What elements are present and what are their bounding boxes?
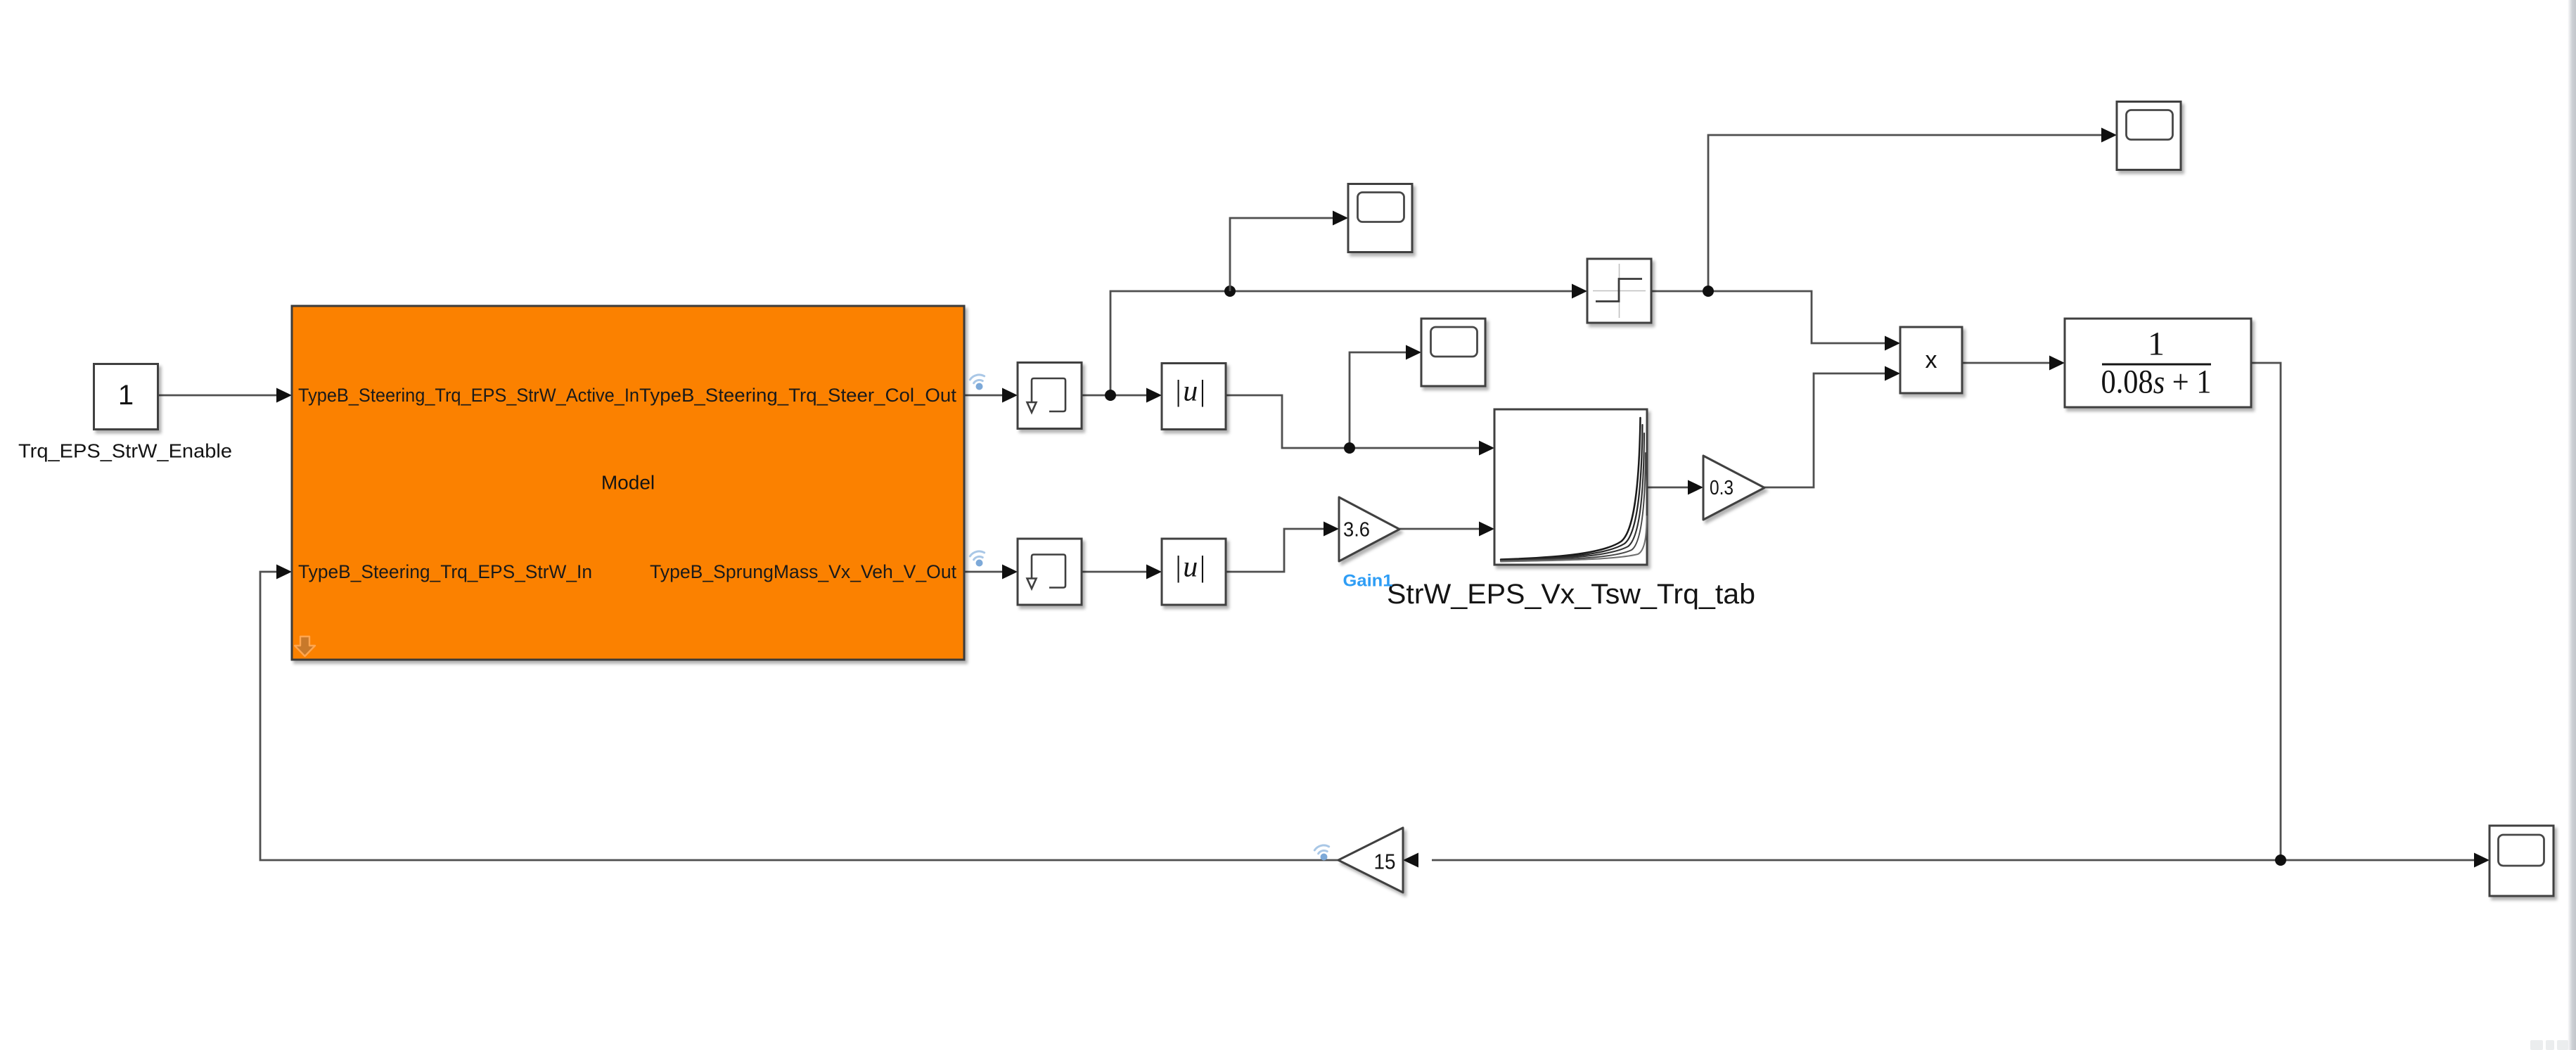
wire: Abs2 out up to Gain1 (3.6) [1226, 529, 1326, 572]
svg-text:TypeB_Steering_Trq_EPS_StrW_In: TypeB_Steering_Trq_EPS_StrW_In [298, 561, 592, 582]
logging wifi badge on out2 wire [969, 550, 984, 560]
arrowhead into Relay [1572, 284, 1587, 299]
wire: LUT out to Gain2 (0.3) [1647, 487, 1690, 489]
Scope3 (bottom right) [2490, 826, 2553, 896]
wire: Model out1 to Memory1 [964, 395, 1004, 397]
svg-text:1: 1 [118, 380, 134, 411]
arrowhead into Product in1 [1885, 336, 1900, 351]
svg-text:|u|: |u| [1175, 376, 1207, 408]
wire: Constant1 to Model in1 [158, 395, 279, 397]
model link badge (down arrow) [295, 636, 315, 656]
arrowhead into Gain1 [1324, 522, 1339, 537]
svg-text:x: x [1925, 347, 1937, 373]
scrollbar right [2568, 0, 2576, 1050]
svg-text:1: 1 [2148, 326, 2165, 363]
junction on Abs1-LUT wire [1344, 442, 1355, 454]
arrowhead into Transfer Fcn [2049, 356, 2065, 371]
Scope4 (middle) [1421, 319, 1485, 386]
wire: Memory1 to Abs1 with branch up to relay line [1082, 291, 1574, 395]
arrowhead into Memory2 [1002, 565, 1018, 580]
watermark bottom right [2530, 1040, 2568, 1050]
svg-text:3.6: 3.6 [1343, 519, 1370, 542]
wire: Memory2 to Abs2 [1082, 571, 1148, 573]
arrowhead into LUT in2 [1479, 522, 1494, 537]
arrowhead into Abs1 [1146, 388, 1162, 403]
svg-text:TypeB_SprungMass_Vx_Veh_V_Out: TypeB_SprungMass_Vx_Veh_V_Out [650, 561, 956, 582]
arrowhead into Gain2 [1688, 480, 1703, 495]
LUT block StrW_EPS_Vx_Tsw_Trq_tab [1494, 409, 1647, 565]
svg-text:TypeB_Steering_Trq_EPS_StrW_Ac: TypeB_Steering_Trq_EPS_StrW_Active_In [298, 385, 639, 406]
arrowhead into Scope3 [2474, 853, 2490, 868]
svg-text:0.08s + 1: 0.08s + 1 [2101, 364, 2212, 401]
junction after Relay [1703, 286, 1714, 297]
Memory2 block [1018, 539, 1082, 605]
svg-text:StrW_EPS_Vx_Tsw_Trq_tab: StrW_EPS_Vx_Tsw_Trq_tab [1387, 579, 1755, 610]
arrowhead into Product in2 [1885, 366, 1900, 381]
arrowhead into Gain3 (15) pointing left [1403, 853, 1418, 868]
logging wifi badge on out1 wire [969, 373, 984, 383]
junction on relay line [1224, 286, 1236, 297]
wire: Transfer Fcn out down to bottom feedback line and Scope3 [1432, 363, 2476, 860]
Product block [1900, 327, 1962, 393]
Gain2 block (0.3) [1703, 456, 1764, 520]
Abs2 block |u| [1162, 539, 1226, 605]
svg-text:Model: Model [601, 472, 655, 494]
junction at Memory1 output [1105, 390, 1116, 401]
arrowhead into Memory1 [1002, 388, 1018, 403]
Constant block Trq_EPS_StrW_Enable [94, 364, 158, 430]
Model subsystem block (orange) [292, 306, 964, 660]
Scope1 (top middle) [1348, 184, 1412, 252]
Memory1 block [1018, 363, 1082, 429]
Gain1 block (3.6) [1339, 497, 1399, 561]
wire: Gain2 (0.3) up to Product in2 [1764, 373, 1887, 487]
wire: Relay output to junction, up to Scope2 and right to Product in1 [1651, 135, 2103, 343]
arrowhead into Scope1 [1333, 211, 1348, 226]
Scope2 (top right) [2117, 102, 2181, 170]
arrowhead into Model in2 [276, 565, 292, 580]
svg-text:Trq_EPS_StrW_Enable: Trq_EPS_StrW_Enable [18, 440, 232, 462]
Transfer Fcn block 1/(0.08s+1) [2065, 319, 2251, 407]
wire: branch up to Scope1 [1230, 218, 1335, 291]
arrowhead into Scope2 [2101, 128, 2117, 143]
svg-text:TypeB_Steering_Trq_Steer_Col_O: TypeB_Steering_Trq_Steer_Col_Out [639, 385, 956, 406]
logging wifi badge near Gain3 (15) [1314, 844, 1328, 854]
Gain3 block (15) pointing left [1338, 828, 1403, 892]
svg-text:0.3: 0.3 [1710, 477, 1734, 499]
arrowhead into Abs2 [1146, 565, 1162, 580]
wire: Abs1 out down to LUT in1 with branch to Scope4 [1226, 352, 1481, 448]
arrowhead into Model in1 [276, 388, 292, 403]
wire: Product out to Transfer Fcn [1962, 362, 2051, 364]
svg-text:|u|: |u| [1175, 551, 1207, 584]
Abs1 block |u| [1162, 364, 1226, 430]
svg-text:15: 15 [1374, 850, 1396, 874]
wire: Gain1 (3.6) to LUT in2 [1399, 528, 1481, 530]
svg-text:Gain1: Gain1 [1343, 572, 1393, 591]
arrowhead into Scope4 [1406, 345, 1421, 360]
arrowhead into LUT in1 [1479, 441, 1494, 456]
Relay block [1587, 259, 1651, 323]
wire: Model out2 to Memory2 [964, 571, 1004, 573]
junction on bottom line [2275, 854, 2286, 866]
wire: feedback into Model in2 (from bottom left riser) [260, 572, 1338, 860]
